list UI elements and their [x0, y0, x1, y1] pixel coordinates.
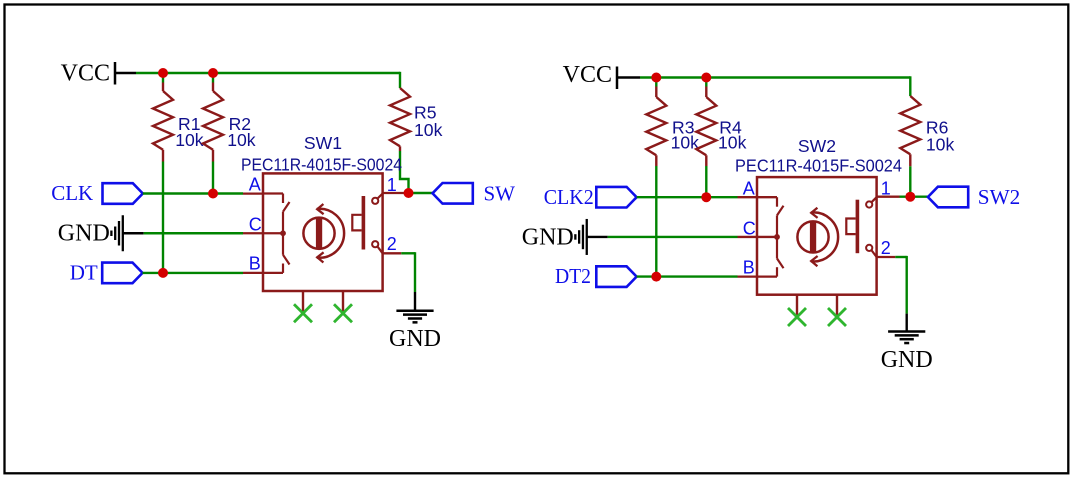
svg-text:SW2: SW2 — [978, 185, 1021, 209]
svg-text:CLK2: CLK2 — [544, 185, 594, 209]
SW1 push button — [362, 196, 366, 250]
SW1 button contact 2 — [372, 241, 378, 247]
SW1 pin B stub and contact — [283, 255, 290, 265]
pin B lead wire (right) — [738, 275, 758, 277]
pin C lead wire — [243, 232, 263, 234]
pin A lead wire — [243, 192, 263, 194]
encoder SW2 body box — [757, 177, 877, 295]
pin C lead wire (right) — [738, 236, 758, 238]
encoder SW1 body box — [263, 173, 383, 291]
resistor R1 — [162, 73, 164, 83]
SW2 button contact 1 — [866, 201, 872, 207]
svg-text:10k: 10k — [718, 133, 747, 153]
svg-text:DT2: DT2 — [555, 264, 591, 288]
svg-text:VCC: VCC — [563, 62, 612, 88]
junction DT/R1 — [158, 268, 168, 278]
SW2 rotor common bar and pin C contact dot — [776, 215, 778, 258]
svg-text:10k: 10k — [926, 134, 955, 154]
wire VCC rail drop to R5 — [399, 72, 401, 81]
svg-text:SW1: SW1 — [304, 133, 342, 153]
svg-text:GND: GND — [389, 326, 441, 352]
svg-text:GND: GND — [522, 224, 574, 250]
power port GND (right bottom) — [906, 314, 908, 332]
SW2 pin 2 lead — [877, 256, 896, 258]
port SW2 — [928, 187, 968, 208]
SW1 rotation arrow arc — [317, 209, 344, 258]
svg-text:GND: GND — [881, 347, 933, 373]
wire pin1 to SW2 port — [900, 195, 928, 197]
pin A lead wire (right) — [738, 196, 758, 198]
no-connect X marks on SW2 mounting pins — [788, 308, 806, 326]
junction SW node — [404, 188, 414, 198]
svg-text:2: 2 — [881, 238, 891, 258]
svg-text:A: A — [249, 175, 261, 195]
wire VCC rail (left) — [136, 72, 400, 74]
SW2 bottom mounting pins — [796, 295, 798, 317]
junction on VCC rail at R3 — [651, 73, 661, 83]
junction CLK/R2 — [208, 189, 218, 199]
svg-text:A: A — [743, 178, 755, 198]
SW2 pin 1 lead — [877, 196, 900, 198]
svg-text:PEC11R-4015F-S0024: PEC11R-4015F-S0024 — [241, 154, 402, 174]
power port GND (left bottom) — [414, 292, 416, 311]
svg-text:CLK: CLK — [51, 181, 93, 205]
svg-text:PEC11R-4015F-S0024: PEC11R-4015F-S0024 — [735, 155, 902, 175]
wire CLK2 to pin A — [637, 196, 738, 198]
svg-text:C: C — [249, 215, 262, 235]
SW2 pin A stub and contact — [757, 196, 777, 198]
pin B lead wire — [243, 272, 263, 274]
junction on VCC rail at R2 — [208, 68, 218, 78]
svg-text:1: 1 — [881, 179, 891, 199]
svg-text:10k: 10k — [227, 130, 256, 150]
junction on VCC rail at R1 — [158, 68, 168, 78]
resistor R2 — [212, 73, 214, 83]
wire DT2 to pin B — [637, 275, 738, 277]
wire R2 bottom to CLK net — [212, 162, 214, 195]
SW1 rotor shaft circle — [303, 218, 334, 249]
wire GND to pin C — [144, 232, 243, 234]
svg-text:DT: DT — [70, 260, 98, 284]
SW1 pin A stub and contact — [263, 192, 283, 194]
wire R1 bottom to DT net — [162, 162, 164, 274]
SW1 bottom mounting pins — [302, 291, 304, 313]
resistor R6 — [909, 86, 911, 96]
junction CLK2/R4 — [701, 192, 711, 202]
wire VCC rail (right) — [640, 76, 910, 78]
resistor R4 — [705, 78, 707, 87]
resistor R5 — [399, 81, 401, 88]
SW1 button contact 1 — [372, 198, 378, 204]
SW2 rotation arrow arc — [811, 212, 838, 261]
wire DT to pin B — [143, 272, 244, 274]
wire pin2 to ground (right) — [895, 256, 906, 258]
no-connect X marks on SW1 mounting pins — [294, 304, 312, 322]
svg-text:B: B — [249, 254, 261, 274]
SW2 pin B stub and contact — [777, 259, 784, 269]
SW1 pin 2 lead — [383, 252, 402, 254]
svg-text:10k: 10k — [175, 130, 204, 150]
SW1 rotor common bar and pin C contact dot — [282, 212, 284, 255]
junction on VCC rail at R4 — [701, 73, 711, 83]
svg-text:VCC: VCC — [61, 60, 110, 86]
svg-text:B: B — [743, 257, 755, 277]
wire CLK to pin A — [143, 192, 243, 194]
svg-text:SW2: SW2 — [798, 136, 836, 156]
port SW — [433, 183, 473, 204]
wire pin1 to SW port — [406, 192, 433, 194]
wire R5 bottom to SW node — [400, 151, 409, 193]
junction SW2 node — [905, 192, 915, 202]
wire VCC rail drop to R6 — [909, 76, 911, 86]
SW2 push button — [856, 200, 860, 254]
wire R6 bottom to SW2 node — [909, 166, 911, 196]
wire R3 bottom to DT2 net — [655, 166, 657, 277]
svg-text:10k: 10k — [414, 120, 443, 140]
wire pin2 to ground — [401, 252, 415, 254]
SW2 rotor shaft circle — [797, 221, 828, 252]
SW1 pin 1 lead — [383, 192, 406, 194]
SW2 button contact 2 — [866, 245, 872, 251]
svg-text:C: C — [743, 218, 756, 238]
resistor R3 — [655, 78, 657, 87]
junction DT2/R3 — [651, 272, 661, 282]
svg-text:GND: GND — [58, 221, 110, 247]
svg-text:SW: SW — [484, 181, 516, 205]
wire R4 bottom to CLK2 net — [705, 166, 707, 197]
svg-text:2: 2 — [387, 234, 397, 254]
wire GND2 to pin C — [608, 236, 738, 238]
svg-text:1: 1 — [387, 175, 397, 195]
